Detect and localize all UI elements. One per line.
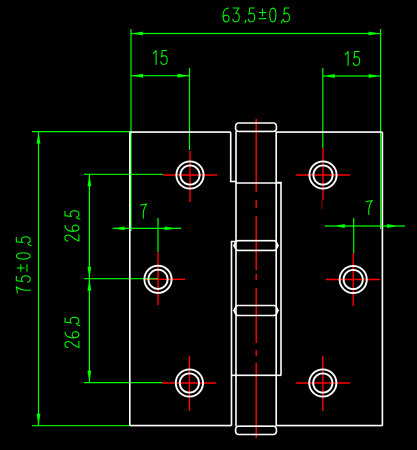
- arrow 26.5 mid lower: [88, 279, 92, 291]
- arrow 15L left: [131, 74, 143, 78]
- extension line middle-right hole centerline: [353, 218, 355, 253]
- collar 1 right brace: [274, 241, 278, 251]
- arrow 63.5 left: [131, 32, 143, 36]
- hole bottom-left inner: [180, 373, 199, 392]
- extension line left hole centerline: [189, 68, 191, 150]
- arrow 26.5 top: [88, 174, 92, 186]
- extension line top for 75 dim: [32, 131, 130, 133]
- dim text 75 +/- 0.5 (rotated): [16, 237, 31, 293]
- arrow 7R left: [333, 224, 345, 228]
- arrow 7L right: [165, 227, 177, 231]
- wire right leaf cut edge: [276, 183, 281, 376]
- white hinge geometry: [130, 123, 383, 435]
- node hole top-left crosshair: [163, 151, 217, 202]
- collar 2 bottom line: [238, 315, 275, 317]
- node hole mid-left crosshair: [145, 252, 185, 305]
- red centerlines: [145, 119, 380, 438]
- collar 1 top line: [238, 240, 275, 242]
- wire left leaf cut edge lower: [232, 242, 236, 426]
- wire left plate left edge: [129, 132, 131, 426]
- hole top-left outer: [176, 161, 203, 188]
- node hole top-right crosshair: [296, 148, 350, 200]
- node hole bottom-right crosshair: [296, 356, 350, 411]
- arrow 15R left: [323, 74, 335, 78]
- dimension line 7 right: [325, 225, 405, 227]
- hole bottom-left outer: [176, 369, 203, 396]
- barrel top cap: [236, 123, 277, 131]
- dim text 15 left: [153, 50, 167, 64]
- hole bottom-right inner: [313, 373, 332, 392]
- dimension line 15 left: [131, 75, 190, 77]
- extension line left plate edge (vertical, overlays plate edge): [130, 29, 132, 231]
- dim text 26.5 upper (rotated): [65, 211, 80, 241]
- extension line top hole row: [84, 173, 163, 175]
- collar 1 left brace: [234, 241, 238, 251]
- collar 2 left brace: [234, 306, 238, 316]
- arrow 15L right: [178, 74, 190, 78]
- wire left plate bottom edge: [130, 425, 232, 427]
- wire left plate top edge: [130, 131, 231, 133]
- wire barrel left edge: [235, 131, 237, 426]
- collar 1 bottom line: [238, 249, 275, 251]
- dim text 7 left: [141, 204, 147, 218]
- collar 2 right brace: [274, 306, 278, 316]
- hole top-left inner: [180, 165, 199, 184]
- arrow 7L left: [113, 227, 125, 231]
- arrow 75 bottom: [37, 414, 41, 426]
- hole top-right outer: [309, 161, 336, 188]
- arrow 75 top: [37, 132, 41, 144]
- hole bottom-right outer: [309, 369, 336, 396]
- extension line bottom for 75 dim: [32, 425, 130, 427]
- wire right plate bottom edge: [276, 425, 382, 427]
- wire knuckle boundary upper: [236, 182, 281, 184]
- dimension line 7 left: [113, 227, 182, 229]
- barrel bottom cap: [236, 426, 277, 434]
- dim text 15 right: [345, 51, 359, 65]
- node hole bottom-left crosshair: [162, 356, 216, 411]
- dimension line 63.5 top: [131, 33, 381, 35]
- dimension line 26.5 chain vertical: [88, 174, 90, 382]
- wire knuckle boundary lower: [232, 374, 282, 376]
- hole mid-right inner: [344, 270, 363, 289]
- dim text 7 right: [366, 201, 372, 215]
- wire left leaf cut edge upper: [231, 132, 236, 181]
- dimension line 15 right: [323, 75, 381, 77]
- collar 2 top line: [238, 305, 275, 307]
- arrow 26.5 bottom: [88, 371, 92, 383]
- arrow 7R right: [387, 224, 399, 228]
- dim text 26.5 lower (rotated): [65, 317, 80, 347]
- barrel pin centerline (dash-dot): [255, 119, 257, 438]
- hole mid-left outer: [144, 266, 171, 293]
- arrow 26.5 mid upper: [88, 267, 92, 279]
- extension line right hole centerline: [322, 68, 324, 148]
- hole mid-left inner: [148, 270, 167, 289]
- arrow 15R right: [369, 74, 381, 78]
- hole top-right inner: [313, 165, 332, 184]
- extension line right plate edge (vertical, overlays plate edge): [380, 29, 382, 229]
- wire right plate right edge: [381, 132, 383, 426]
- hole mid-right outer: [340, 266, 367, 293]
- dark red tick below top-right hole: [321, 200, 323, 209]
- wire right plate top edge: [276, 131, 382, 133]
- arrow 63.5 right: [369, 32, 381, 36]
- extension line bottom hole row: [84, 382, 162, 384]
- green over red: middle row extension overlays: [84, 218, 158, 279]
- dimension line 75 vertical: [38, 132, 40, 426]
- wire barrel right edge: [275, 131, 277, 426]
- node hole mid-right crosshair: [326, 253, 380, 306]
- dim text 63.5 +/- 0.5: [223, 8, 290, 23]
